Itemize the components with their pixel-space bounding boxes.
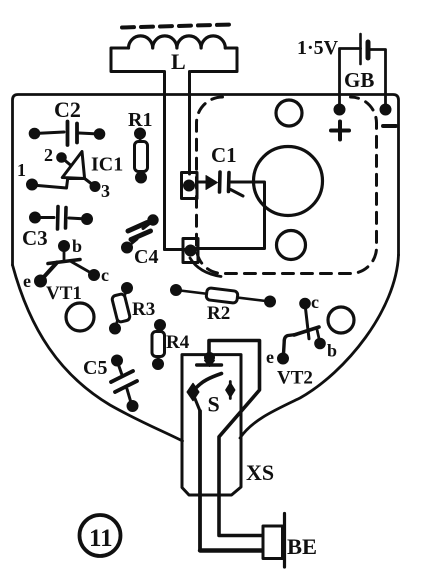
svg-text:c: c — [101, 265, 109, 285]
svg-text:R3: R3 — [132, 299, 155, 320]
svg-text:GB: GB — [344, 68, 374, 92]
svg-text:e: e — [23, 271, 31, 291]
svg-text:R1: R1 — [128, 109, 152, 131]
svg-text:C2: C2 — [54, 97, 81, 122]
svg-text:3: 3 — [101, 181, 110, 201]
svg-text:C5: C5 — [83, 357, 107, 379]
svg-text:b: b — [327, 341, 337, 361]
svg-text:VT2: VT2 — [277, 368, 313, 389]
svg-text:c: c — [311, 292, 319, 312]
svg-text:b: b — [72, 236, 82, 256]
svg-text:BE: BE — [287, 534, 317, 559]
svg-text:C3: C3 — [22, 226, 48, 250]
svg-text:1: 1 — [17, 160, 26, 180]
svg-text:R2: R2 — [207, 303, 230, 324]
svg-text:S: S — [208, 392, 220, 417]
svg-text:R4: R4 — [166, 332, 190, 353]
svg-text:VT1: VT1 — [46, 283, 82, 304]
svg-text:XS: XS — [246, 460, 274, 485]
svg-text:L: L — [171, 49, 186, 74]
svg-text:2: 2 — [44, 145, 53, 165]
svg-text:C4: C4 — [134, 246, 158, 268]
svg-text:C1: C1 — [211, 143, 237, 167]
svg-text:IC1: IC1 — [91, 154, 123, 176]
svg-text:11: 11 — [89, 525, 113, 552]
svg-text:1·5V: 1·5V — [297, 37, 339, 59]
svg-text:e: e — [266, 347, 274, 367]
